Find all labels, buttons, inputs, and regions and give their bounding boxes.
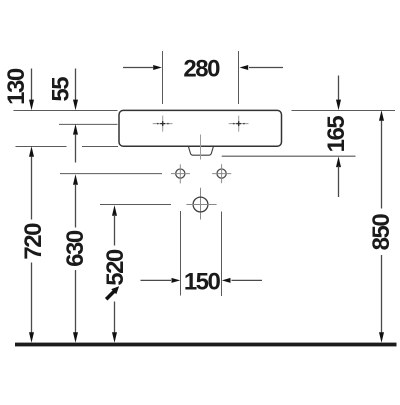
svg-text:630: 630 [62, 230, 89, 267]
dim 280 right arrow [240, 65, 284, 70]
extension line rim top left [14, 110, 118, 112]
dim 55 arrow up [73, 124, 78, 163]
fixing hole right circle [212, 164, 231, 183]
extension line rim top right [292, 110, 396, 112]
basin body outline [119, 110, 282, 146]
svg-text:720: 720 [20, 223, 47, 260]
drain outlet trapezoid [189, 147, 214, 155]
dim 280 extension line left [162, 51, 164, 104]
dim 130 arrow down [29, 69, 34, 111]
extension line trap axis [100, 204, 171, 206]
extension line fixing holes [60, 173, 162, 175]
dim 165 arrow up [336, 157, 341, 198]
extension line drain bottom right [222, 155, 356, 157]
dim 55 arrow down [73, 69, 78, 111]
extension line basin bottom [16, 146, 67, 148]
vertical centerline through trap circle [200, 188, 202, 220]
dim 280 extension line right [238, 51, 240, 104]
fixing hole left circle [171, 164, 190, 183]
svg-text:520: 520 [102, 249, 129, 286]
dim 150 extension line right [221, 212, 223, 297]
svg-text:55: 55 [47, 77, 74, 102]
extension line tap axis [59, 123, 118, 125]
tap hole crosshair left [153, 116, 173, 132]
dim 850 line upper [379, 110, 384, 208]
dim 280 left arrow [123, 65, 162, 70]
vertical centerline (dashed) through drain [200, 135, 202, 160]
dim 720 line upper [29, 146, 34, 219]
dim 520 line lower [112, 302, 117, 343]
waste trap circle [186, 197, 216, 212]
tap hole crosshair right [229, 116, 249, 132]
dim 150 right arrow [222, 278, 262, 283]
dim 630 line lower [73, 270, 78, 343]
svg-text:280: 280 [183, 56, 220, 83]
dim 520 oblique arrow [104, 284, 122, 302]
svg-text:150: 150 [184, 269, 221, 296]
dim 850 line lower [379, 255, 384, 343]
dim 165 arrow down [336, 76, 341, 111]
dim 150 left arrow [141, 278, 181, 283]
svg-text:165: 165 [323, 116, 350, 153]
dim 150 extension line left [180, 211, 182, 296]
svg-text:130: 130 [3, 68, 30, 105]
svg-text:850: 850 [368, 214, 395, 251]
dim 720 line lower [29, 263, 34, 343]
dim 630 line upper [73, 174, 78, 227]
floor line [15, 343, 397, 347]
dim 520 line upper [112, 205, 117, 245]
